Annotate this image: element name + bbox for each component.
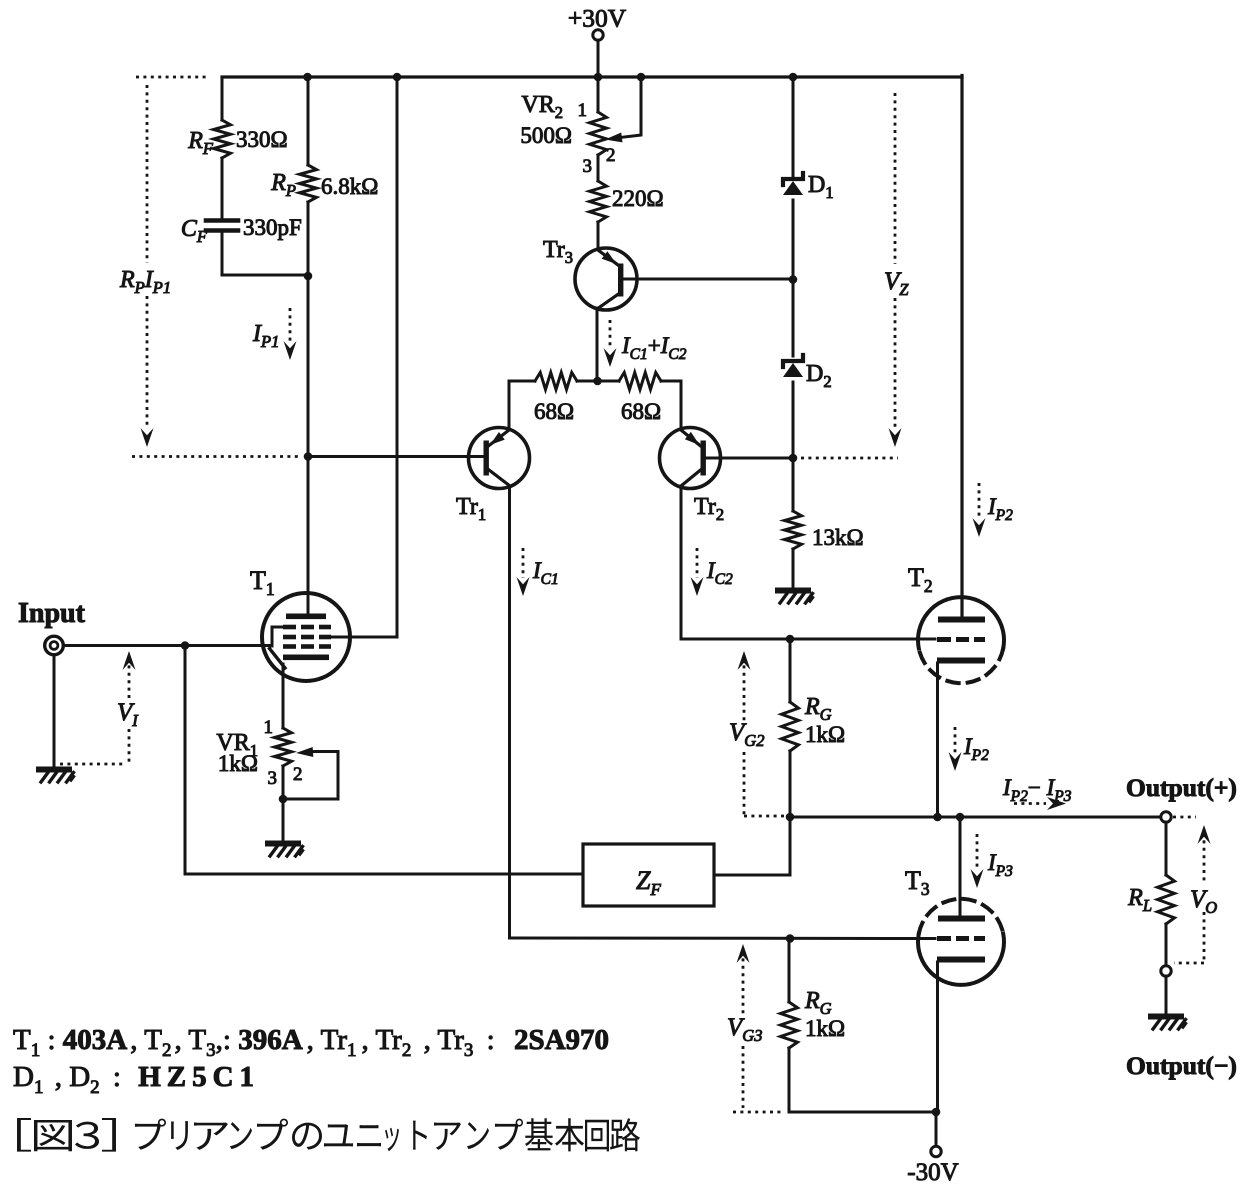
capacitor CF <box>181 215 302 246</box>
arrow IC1+IC2 <box>604 320 687 367</box>
wire 68 right <box>661 380 681 383</box>
transistor Tr3 <box>543 237 637 310</box>
node Tr3 base - zener <box>789 275 798 284</box>
svg-text:1: 1 <box>264 717 274 738</box>
VR1 wiper <box>283 747 338 799</box>
arrow RP IP1 <box>141 428 154 447</box>
wire D2 down <box>792 382 795 511</box>
label VG2 <box>729 719 764 750</box>
svg-text:1kΩ: 1kΩ <box>805 1016 845 1041</box>
triode T2 <box>908 563 1004 683</box>
transistor Tr1 <box>456 428 530 525</box>
wire T3 cathode <box>936 962 939 1112</box>
node VR1 wiper-bottom <box>279 795 288 804</box>
ground 13k <box>778 591 813 604</box>
arrow IC2 <box>691 548 734 596</box>
label Input <box>18 598 86 629</box>
terminal -30V <box>907 1146 958 1186</box>
wire 68 mid <box>577 380 619 383</box>
dotted VZ <box>894 93 897 428</box>
triode T3 <box>905 866 1004 985</box>
resistor RP <box>270 77 378 276</box>
wire input node to ZF <box>185 646 583 875</box>
svg-text:Output(−): Output(−) <box>1126 1051 1237 1080</box>
wire Tr2 collector <box>681 486 935 639</box>
arrow IP2-IP3 <box>1014 797 1066 810</box>
wire Tr1 collector <box>508 486 511 938</box>
node rail-VR2 wiper <box>637 73 646 82</box>
VR2 wiper wire <box>605 77 641 142</box>
wire T3 anode <box>959 817 962 916</box>
wire VR1 to ground <box>282 766 285 841</box>
ground input <box>39 770 74 783</box>
ground VR1 <box>268 844 303 857</box>
potentiometer VR1 <box>216 728 291 776</box>
dotted VO <box>1173 817 1211 963</box>
svg-text:330pF: 330pF <box>243 215 302 240</box>
node rail-g2 <box>393 73 402 82</box>
dotted RP IP1 top <box>136 76 209 79</box>
zener D2 <box>783 355 832 391</box>
svg-text:68Ω: 68Ω <box>621 399 661 424</box>
wire Tr3 base <box>623 278 793 281</box>
wire input to T1 grid <box>64 644 273 647</box>
wire output node <box>790 816 1161 819</box>
wire rail to D1 <box>792 77 795 178</box>
svg-text:Input: Input <box>18 598 86 629</box>
zener D1 <box>783 172 834 202</box>
svg-text:500Ω: 500Ω <box>520 123 572 148</box>
arrow VI <box>60 651 136 764</box>
svg-text:6.8kΩ: 6.8kΩ <box>321 174 378 199</box>
VR1 pin 1 <box>264 717 274 738</box>
arrow IP1 <box>252 308 297 360</box>
resistor RG2 <box>782 639 846 817</box>
pentode T1 <box>250 566 397 681</box>
wire RP to T1 plate <box>307 276 310 615</box>
wire RG3 to -30V <box>789 1111 936 1114</box>
svg-text:1: 1 <box>578 100 588 121</box>
arrow IC1 <box>517 548 559 596</box>
text figure caption [Zu 3] preamp unit-amp basic circuit <box>17 1118 640 1152</box>
wire Tr2 base <box>706 457 793 460</box>
wire to Tr1 emitter <box>508 381 511 429</box>
node rail-supply <box>594 73 603 82</box>
node RG2-ZF-output <box>786 813 795 822</box>
dotted VG3 <box>733 944 781 1112</box>
node rail-D1 <box>789 73 798 82</box>
wire rail right drop to T2 anode <box>960 76 963 618</box>
transistor Tr2 <box>660 428 725 525</box>
dotted VG2 <box>738 651 787 816</box>
ground RL <box>1151 1017 1186 1030</box>
svg-text:3: 3 <box>268 768 278 789</box>
label VG3 <box>727 1014 762 1045</box>
VR2 pin 2 <box>606 145 616 166</box>
arrow IP3 <box>971 834 1014 888</box>
svg-text:330Ω: 330Ω <box>236 127 288 152</box>
resistor 68 right <box>619 373 661 425</box>
wire RL ground <box>1165 976 1168 1014</box>
wire top rail <box>222 75 962 78</box>
resistor 13k <box>785 511 864 550</box>
node T2 cathode <box>933 813 942 822</box>
label VZ <box>884 268 909 299</box>
label Output(+) <box>1126 773 1237 802</box>
wire T2 cathode <box>936 663 939 817</box>
svg-text:220Ω: 220Ω <box>612 186 664 211</box>
wire input ground <box>53 655 56 767</box>
label VI <box>117 699 139 730</box>
potentiometer VR2 <box>520 77 606 155</box>
VR1 pin 3 <box>268 768 278 789</box>
terminal Output(+) <box>1161 812 1171 822</box>
wire Tr1 collector to T3 grid <box>510 937 936 941</box>
wire T1 cathode <box>282 664 285 728</box>
node Tr2 base - zener - 13k <box>789 454 798 463</box>
svg-text:T1 : 403A, T2, T3,: 396A, Tr1,: T1 : 403A, T2, T3,: 396A, Tr1, Tr2 , Tr3… <box>13 1024 609 1061</box>
svg-text:-30V: -30V <box>907 1159 958 1182</box>
terminal Output(-) node <box>1161 966 1171 976</box>
node input junction <box>181 641 190 650</box>
terminal Input <box>45 636 64 655</box>
wire CF bottom <box>222 232 308 275</box>
svg-text:68Ω: 68Ω <box>534 399 574 424</box>
wire g2 riser <box>330 77 397 637</box>
label VO <box>1190 886 1217 917</box>
resistor RL <box>1127 822 1174 966</box>
wire 13k to ground <box>792 549 795 588</box>
wire ZF out <box>714 817 790 875</box>
label IP2-IP3 <box>1002 775 1072 805</box>
wire Tr1 base <box>308 455 484 458</box>
wire D1 to node <box>792 200 795 280</box>
wire RF-CF <box>221 158 224 220</box>
node T2 grid - RG <box>786 635 795 644</box>
svg-text:2: 2 <box>606 145 616 166</box>
node -30V junction <box>932 1108 941 1117</box>
resistor RG3 <box>781 939 846 1113</box>
node T3 anode <box>956 813 965 822</box>
wire 68 left top <box>509 380 535 383</box>
node T3 grid - RG3 <box>786 934 795 943</box>
wire -30V drop <box>935 1112 938 1146</box>
text parts list line 1 <box>13 1024 609 1061</box>
node rail-RF <box>303 73 312 82</box>
arrow IP2 anode <box>973 483 1014 537</box>
resistor RF <box>187 120 287 158</box>
dotted RP IP1 bottom <box>132 455 298 458</box>
wire Tr3 collector <box>596 308 599 381</box>
resistor 220 <box>590 155 664 249</box>
text parts list line 2 <box>13 1061 260 1098</box>
arrow IP2 cathode <box>949 727 990 771</box>
arrow VZ <box>889 428 902 447</box>
VR1 pin 2 <box>293 764 303 785</box>
label Output(-) <box>1126 1051 1237 1080</box>
+30V supply terminal <box>568 4 627 78</box>
impedance ZF <box>583 844 714 906</box>
node T1 plate - Tr1 base <box>304 452 313 461</box>
svg-text:1kΩ: 1kΩ <box>218 751 258 776</box>
svg-text:Output(+): Output(+) <box>1126 773 1237 802</box>
svg-text:+30V: +30V <box>568 4 627 33</box>
VR2 pin 3 <box>583 156 593 177</box>
VR2 pin 1 <box>578 100 588 121</box>
node CF-RP junction <box>304 272 313 281</box>
dotted RP IP1 vertical <box>146 85 149 428</box>
label RP IP1 <box>119 267 171 297</box>
wire node to D2 <box>792 280 795 356</box>
dotted VZ link <box>801 457 898 460</box>
node 68-68 junction <box>593 377 602 386</box>
wire RF top <box>221 77 224 120</box>
svg-text:3: 3 <box>583 156 593 177</box>
wire to Tr2 emitter <box>680 381 683 429</box>
svg-text:1kΩ: 1kΩ <box>805 722 845 747</box>
resistor 68 left <box>534 373 577 425</box>
svg-text:13kΩ: 13kΩ <box>812 525 864 550</box>
svg-text:2: 2 <box>293 764 303 785</box>
